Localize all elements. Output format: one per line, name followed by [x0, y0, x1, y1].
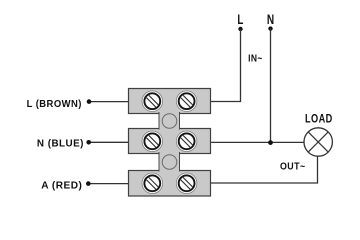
svg-text:N: N	[267, 12, 274, 28]
svg-text:L (BROWN): L (BROWN)	[27, 99, 82, 111]
terminal block 2 (N)	[129, 129, 211, 154]
wire: block 2 to lamp (through junction)	[211, 141, 305, 143]
connector circle between block 2 and 3	[162, 155, 177, 170]
screw block3 right	[176, 173, 196, 193]
wire: A (RED) lead to block 3	[88, 183, 128, 185]
node: L (BROWN) terminal dot	[87, 99, 92, 104]
node: N (BLUE) terminal dot	[86, 140, 91, 145]
svg-text:N (BLUE): N (BLUE)	[37, 138, 84, 149]
connector circle between block 1 and 2	[162, 114, 177, 129]
node: A (RED) terminal dot	[86, 181, 91, 186]
wire: lamp bottom down and left into block 3	[211, 156, 318, 183]
node: junction of N line and lamp wire (diamond)	[268, 140, 273, 145]
bridge between block 1 and block 2	[159, 112, 180, 131]
wire: L (BROWN) lead to block 1	[89, 101, 129, 103]
node: L input dot	[238, 27, 242, 31]
svg-text:OUT~: OUT~	[280, 161, 306, 173]
wire: N (BLUE) lead to block 2	[89, 141, 129, 143]
svg-text:L: L	[237, 11, 243, 27]
wire: L input down and left into block 1	[211, 29, 241, 102]
terminal block 3 (A)	[129, 171, 211, 197]
svg-text:IN~: IN~	[248, 53, 263, 65]
terminal block 1 (L)	[129, 89, 211, 114]
lamp symbol (circle with X)	[304, 128, 332, 156]
svg-text:LOAD: LOAD	[305, 114, 333, 126]
screw block3 left	[142, 173, 162, 193]
svg-text:A (RED): A (RED)	[41, 181, 82, 192]
bridge between block 2 and block 3	[159, 152, 180, 173]
screw block1 right	[176, 91, 196, 111]
screw block2 right	[176, 131, 196, 151]
screw block1 left	[142, 91, 162, 111]
screw block2 left	[142, 131, 162, 151]
node: N input dot	[268, 26, 272, 30]
wire: N input down to junction	[270, 29, 272, 143]
